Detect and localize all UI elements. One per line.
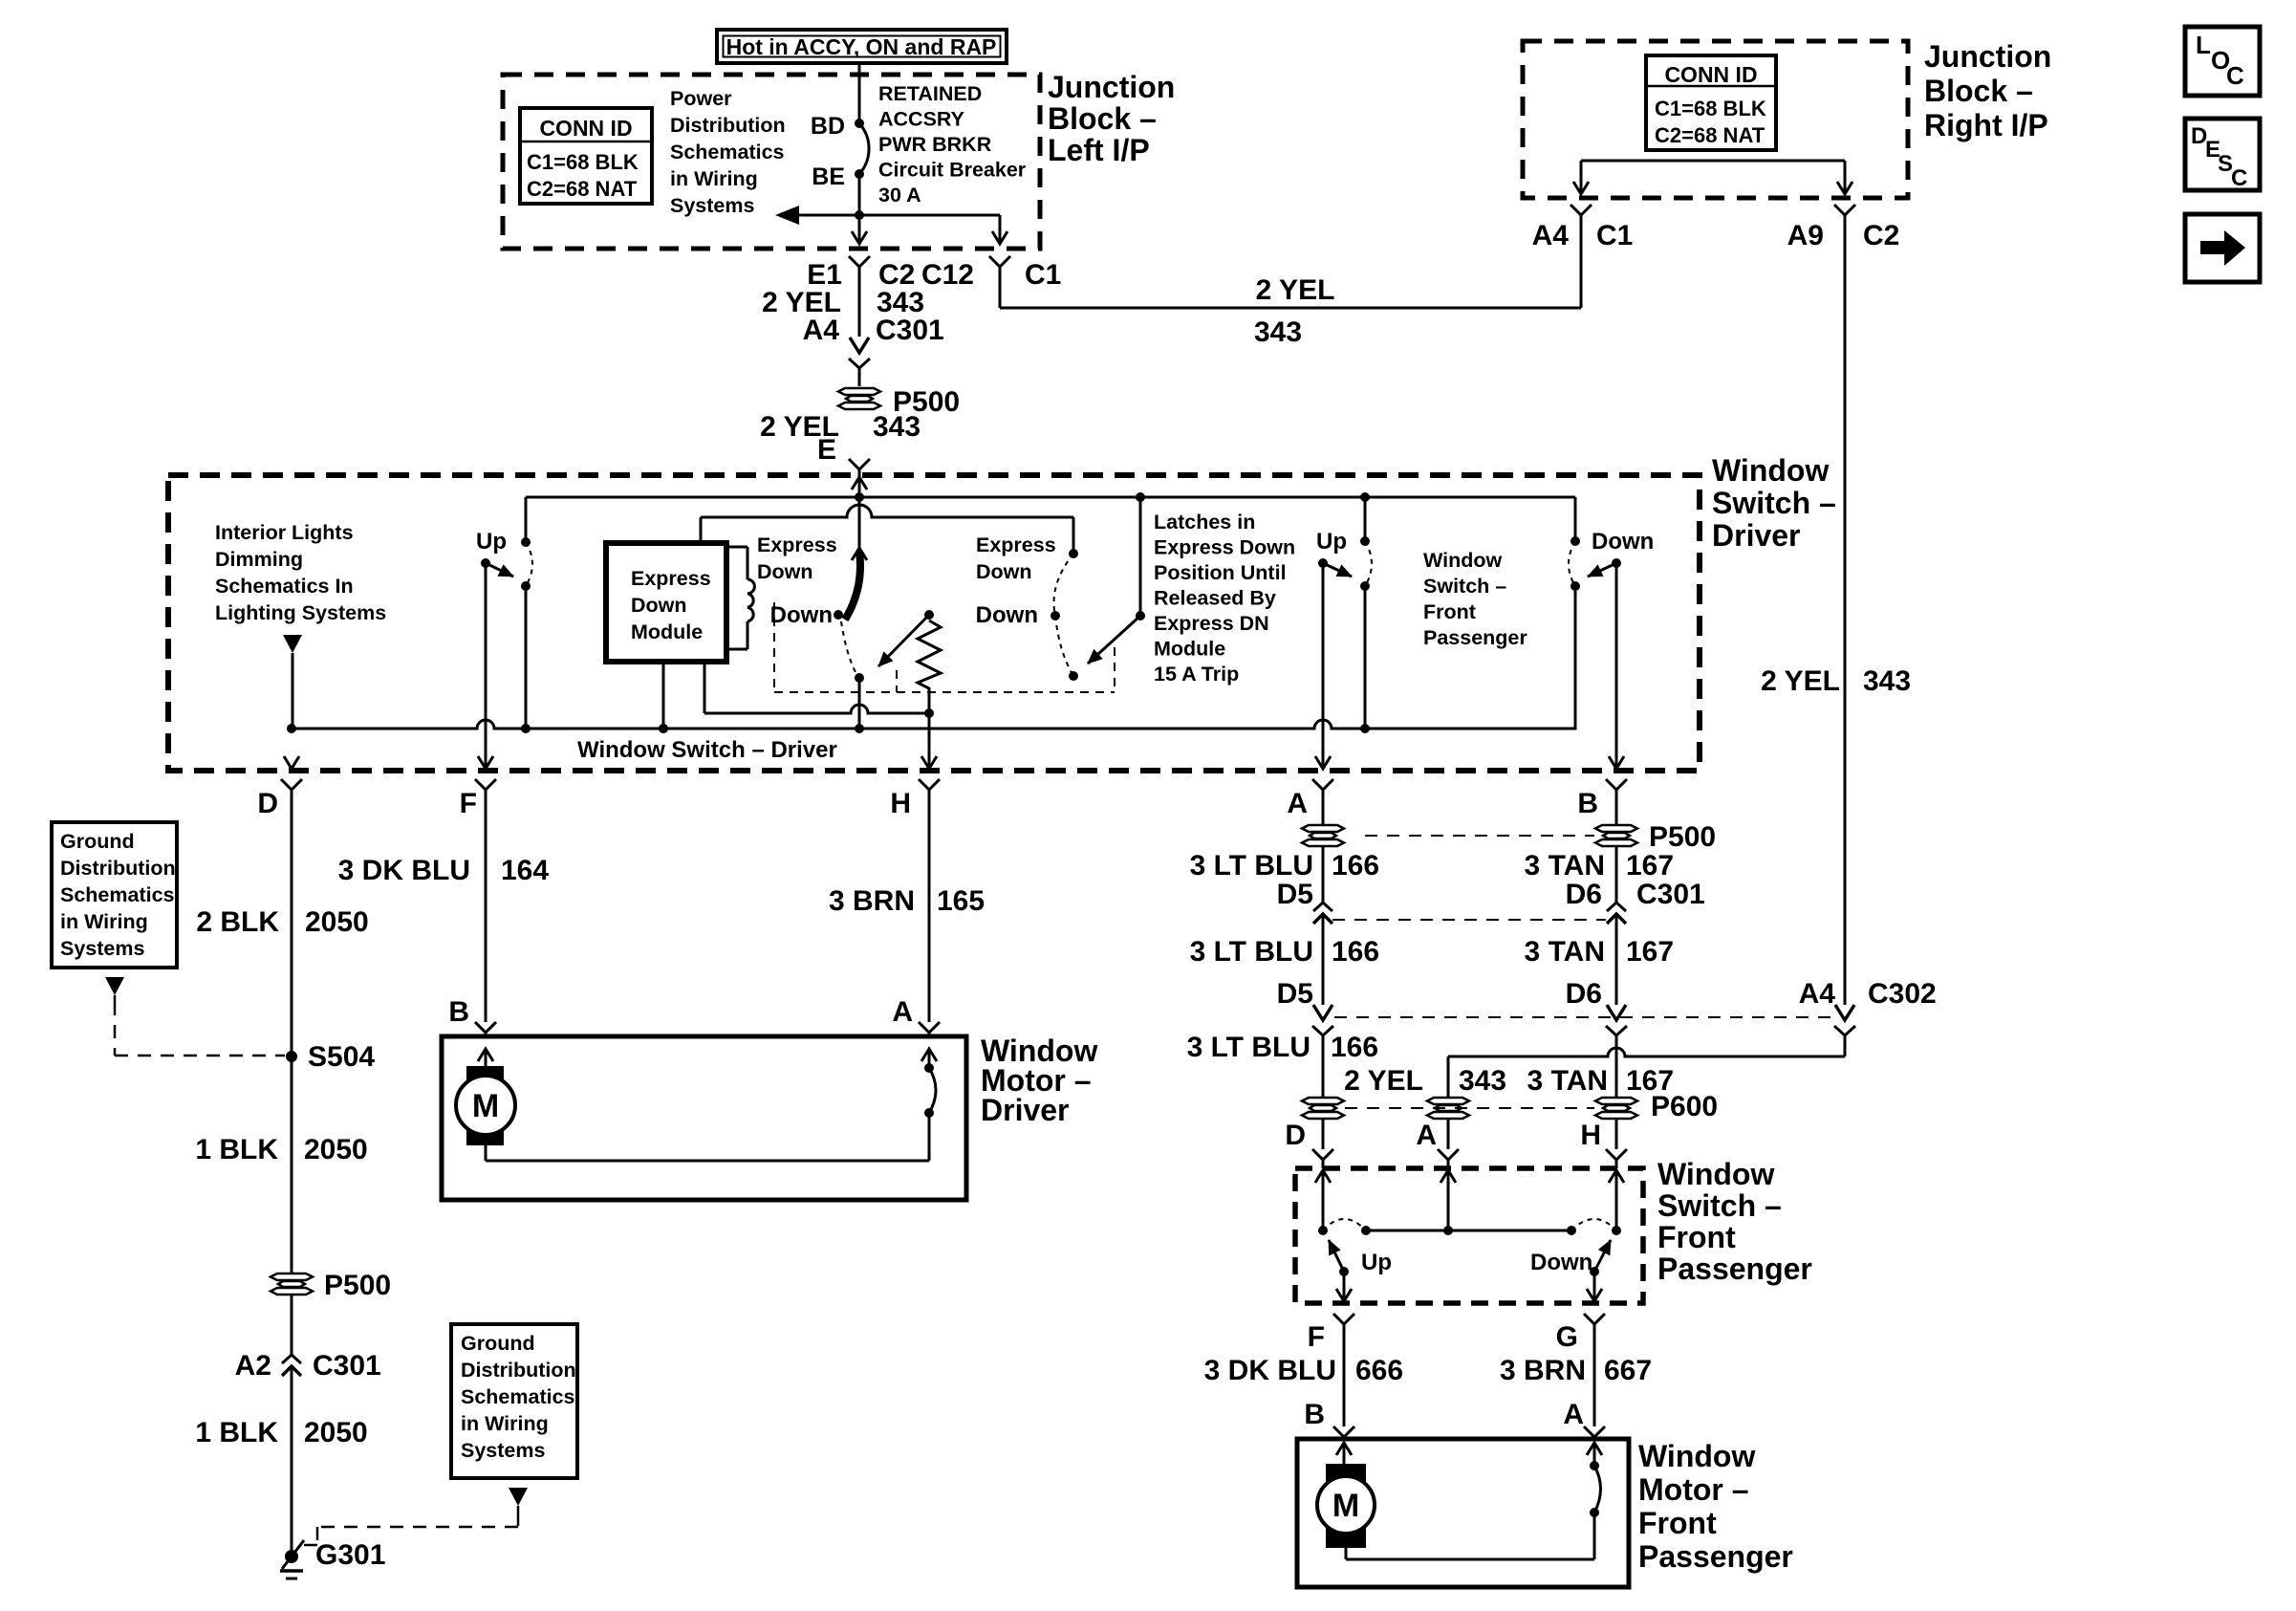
svg-text:166: 166: [1332, 936, 1379, 968]
svg-text:2050: 2050: [304, 1134, 368, 1165]
svg-text:Down: Down: [1530, 1250, 1592, 1275]
svg-text:Position Until: Position Until: [1154, 561, 1287, 584]
svg-text:C1: C1: [1596, 220, 1633, 251]
svg-text:A: A: [1563, 1399, 1584, 1430]
svg-text:Passenger: Passenger: [1638, 1539, 1793, 1574]
svg-text:Front: Front: [1423, 600, 1476, 623]
svg-text:3 LT BLU: 3 LT BLU: [1190, 850, 1313, 882]
svg-text:CONN ID: CONN ID: [1664, 62, 1757, 87]
svg-text:343: 343: [1863, 665, 1911, 697]
svg-text:P600: P600: [1651, 1091, 1718, 1122]
svg-text:166: 166: [1331, 1032, 1378, 1063]
svg-text:C301: C301: [313, 1350, 381, 1382]
svg-text:3 BRN: 3 BRN: [1500, 1355, 1586, 1386]
svg-text:C: C: [2226, 61, 2244, 90]
svg-text:Junction: Junction: [1048, 70, 1175, 104]
svg-text:Lighting Systems: Lighting Systems: [215, 601, 386, 624]
svg-text:2050: 2050: [304, 1417, 368, 1448]
svg-text:15 A Trip: 15 A Trip: [1154, 663, 1239, 686]
svg-text:D5: D5: [1277, 978, 1313, 1010]
svg-text:Express: Express: [631, 567, 711, 590]
svg-text:Schematics In: Schematics In: [215, 575, 354, 598]
svg-text:C2=68 NAT: C2=68 NAT: [527, 177, 638, 201]
svg-text:Module: Module: [631, 620, 703, 643]
svg-text:Window: Window: [1712, 453, 1829, 488]
svg-text:2 BLK: 2 BLK: [196, 906, 279, 938]
svg-text:BE: BE: [812, 163, 845, 190]
svg-text:Systems: Systems: [60, 937, 144, 960]
svg-text:Up: Up: [1316, 529, 1347, 555]
svg-text:166: 166: [1332, 850, 1379, 882]
svg-text:Schematics: Schematics: [60, 883, 175, 906]
svg-text:Down: Down: [976, 602, 1038, 628]
svg-text:Circuit Breaker: Circuit Breaker: [878, 159, 1027, 182]
svg-text:Passenger: Passenger: [1657, 1252, 1812, 1286]
svg-text:Up: Up: [476, 529, 507, 555]
svg-text:167: 167: [1626, 850, 1674, 882]
svg-text:Down: Down: [631, 594, 687, 617]
svg-text:167: 167: [1626, 936, 1674, 968]
svg-text:164: 164: [501, 855, 549, 886]
svg-text:L: L: [2196, 31, 2211, 59]
svg-text:C301: C301: [876, 315, 944, 346]
svg-text:A: A: [1416, 1120, 1437, 1151]
svg-text:C1: C1: [1025, 259, 1061, 291]
svg-text:C302: C302: [1868, 978, 1937, 1010]
svg-text:Distribution: Distribution: [60, 857, 176, 880]
svg-text:C1=68 BLK: C1=68 BLK: [527, 150, 639, 174]
svg-text:Schematics: Schematics: [461, 1385, 575, 1408]
svg-text:Down: Down: [770, 602, 833, 628]
svg-text:Express DN: Express DN: [1154, 612, 1269, 635]
svg-text:C1=68 BLK: C1=68 BLK: [1655, 97, 1766, 120]
svg-text:2 YEL: 2 YEL: [1761, 665, 1840, 697]
svg-text:Front: Front: [1638, 1506, 1717, 1540]
svg-text:F: F: [1308, 1321, 1325, 1353]
svg-text:CONN ID: CONN ID: [539, 116, 632, 141]
svg-text:Junction: Junction: [1924, 39, 2051, 74]
svg-text:M: M: [472, 1088, 499, 1124]
svg-text:Distribution: Distribution: [670, 114, 786, 137]
svg-text:3 TAN: 3 TAN: [1525, 850, 1605, 882]
svg-text:Right I/P: Right I/P: [1924, 108, 2048, 142]
svg-text:B: B: [1304, 1399, 1325, 1430]
svg-text:Interior Lights: Interior Lights: [215, 521, 354, 544]
svg-text:667: 667: [1604, 1355, 1652, 1386]
svg-text:Window Switch – Driver: Window Switch – Driver: [577, 737, 837, 763]
svg-text:343: 343: [1459, 1065, 1506, 1097]
svg-text:3 TAN: 3 TAN: [1525, 936, 1605, 968]
svg-text:H: H: [1580, 1120, 1601, 1151]
svg-text:C301: C301: [1636, 879, 1705, 910]
svg-text:in Wiring: in Wiring: [461, 1412, 549, 1435]
svg-text:3 LT BLU: 3 LT BLU: [1187, 1032, 1310, 1063]
svg-text:165: 165: [937, 885, 985, 917]
svg-text:Down: Down: [976, 560, 1032, 583]
svg-text:H: H: [890, 788, 911, 819]
svg-text:3 TAN: 3 TAN: [1527, 1065, 1608, 1097]
svg-text:Driver: Driver: [981, 1093, 1070, 1127]
svg-text:3 DK BLU: 3 DK BLU: [1204, 1355, 1336, 1386]
svg-text:Down: Down: [757, 560, 813, 583]
svg-text:Left I/P: Left I/P: [1048, 133, 1150, 167]
svg-text:D6: D6: [1566, 978, 1602, 1010]
svg-text:D6: D6: [1566, 879, 1602, 910]
svg-text:D: D: [1285, 1120, 1306, 1151]
svg-text:ACCSRY: ACCSRY: [878, 108, 964, 131]
svg-text:1 BLK: 1 BLK: [195, 1134, 278, 1165]
svg-text:3 BRN: 3 BRN: [829, 885, 915, 917]
svg-text:Dimming: Dimming: [215, 548, 303, 571]
svg-text:Distribution: Distribution: [461, 1359, 576, 1382]
svg-text:Passenger: Passenger: [1423, 626, 1527, 649]
svg-text:P500: P500: [1649, 821, 1716, 853]
svg-text:2050: 2050: [305, 906, 369, 938]
svg-text:2 YEL: 2 YEL: [1344, 1065, 1423, 1097]
svg-text:Window: Window: [1638, 1439, 1755, 1473]
svg-text:Express Down: Express Down: [1154, 536, 1295, 559]
svg-text:B: B: [1577, 788, 1598, 819]
svg-text:D5: D5: [1277, 879, 1313, 910]
svg-text:A4: A4: [1799, 978, 1836, 1010]
svg-text:Latches in: Latches in: [1154, 511, 1255, 533]
svg-text:A4: A4: [1532, 220, 1570, 251]
svg-text:C2=68 NAT: C2=68 NAT: [1655, 123, 1765, 147]
svg-text:Switch –: Switch –: [1712, 486, 1836, 520]
svg-text:Front: Front: [1657, 1220, 1736, 1254]
svg-text:Switch –: Switch –: [1657, 1188, 1782, 1223]
svg-text:Down: Down: [1592, 529, 1654, 555]
svg-text:Driver: Driver: [1712, 518, 1801, 553]
svg-text:in Wiring: in Wiring: [60, 910, 148, 933]
svg-text:G: G: [1556, 1321, 1578, 1353]
svg-text:343: 343: [873, 411, 921, 443]
svg-text:Switch –: Switch –: [1423, 575, 1506, 598]
svg-text:in Wiring: in Wiring: [670, 167, 758, 190]
svg-text:666: 666: [1355, 1355, 1403, 1386]
svg-text:C: C: [2231, 165, 2247, 191]
svg-text:S504: S504: [308, 1041, 375, 1073]
svg-text:E: E: [817, 434, 836, 466]
svg-text:Power: Power: [670, 87, 732, 110]
svg-text:Express: Express: [757, 533, 837, 556]
svg-text:A2: A2: [235, 1350, 271, 1382]
svg-text:F: F: [460, 788, 477, 819]
svg-text:30 A: 30 A: [878, 184, 921, 207]
svg-text:Released By: Released By: [1154, 587, 1276, 610]
svg-text:Up: Up: [1361, 1250, 1392, 1275]
svg-text:1 BLK: 1 BLK: [195, 1417, 278, 1448]
svg-text:C12: C12: [921, 259, 974, 291]
svg-text:Schematics: Schematics: [670, 141, 785, 163]
svg-text:M: M: [1332, 1488, 1359, 1524]
svg-text:3 DK BLU: 3 DK BLU: [338, 855, 470, 886]
svg-text:Block –: Block –: [1924, 74, 2033, 108]
svg-text:A: A: [892, 996, 913, 1028]
svg-text:A9: A9: [1787, 220, 1824, 251]
svg-text:3 LT BLU: 3 LT BLU: [1190, 936, 1313, 968]
svg-text:Motor –: Motor –: [1638, 1472, 1749, 1507]
svg-text:Block –: Block –: [1048, 101, 1157, 136]
svg-text:BD: BD: [811, 113, 845, 140]
svg-text:Systems: Systems: [670, 194, 754, 217]
svg-text:Hot in ACCY, ON and RAP: Hot in ACCY, ON and RAP: [726, 34, 997, 59]
svg-text:Ground: Ground: [461, 1332, 535, 1355]
svg-text:C2: C2: [1863, 220, 1899, 251]
svg-text:P500: P500: [324, 1270, 391, 1301]
svg-text:Systems: Systems: [461, 1439, 545, 1462]
svg-text:A4: A4: [803, 315, 840, 346]
svg-text:Window: Window: [1657, 1157, 1774, 1191]
svg-text:343: 343: [1254, 316, 1302, 348]
svg-text:Ground: Ground: [60, 830, 135, 853]
svg-text:Express: Express: [976, 533, 1056, 556]
svg-text:PWR BRKR: PWR BRKR: [878, 133, 992, 156]
svg-text:B: B: [448, 996, 469, 1028]
svg-text:G301: G301: [315, 1539, 385, 1571]
svg-text:RETAINED: RETAINED: [878, 82, 982, 105]
svg-text:2 YEL: 2 YEL: [1256, 274, 1335, 306]
svg-text:D: D: [257, 788, 278, 819]
svg-text:Window: Window: [1423, 549, 1502, 572]
svg-text:A: A: [1287, 788, 1308, 819]
svg-text:Module: Module: [1154, 638, 1225, 661]
